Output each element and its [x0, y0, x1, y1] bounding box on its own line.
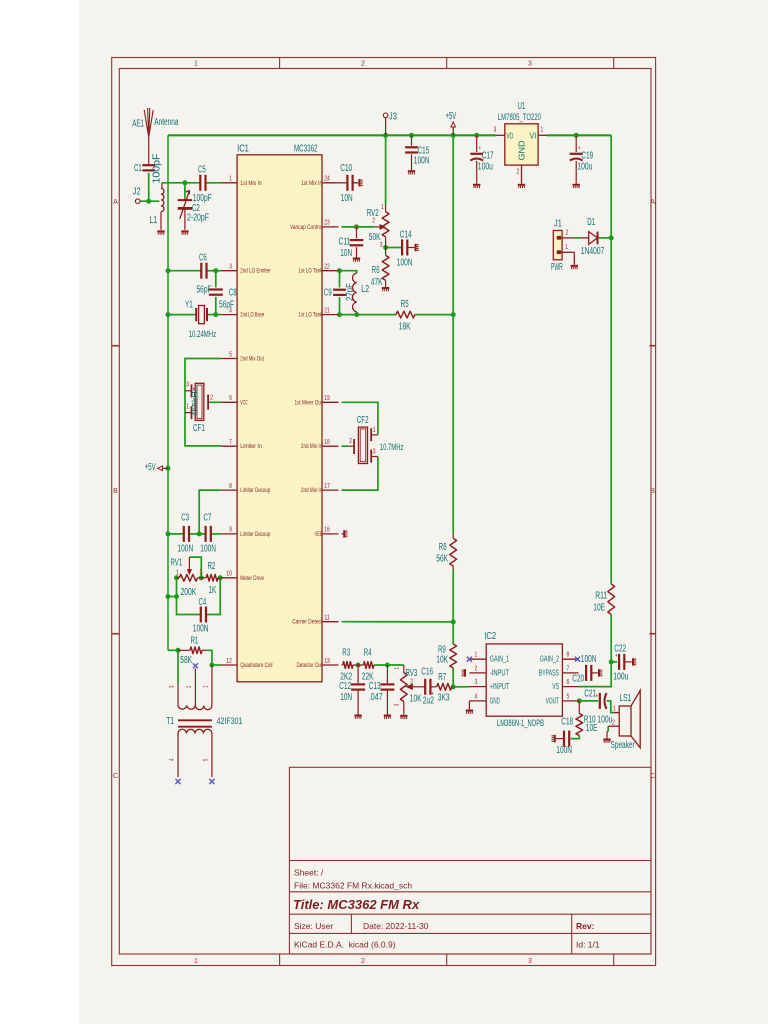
connector J2: [133, 186, 141, 203]
wire CF1 pin 2 to IC1 pin 6 VCC: [210, 401, 222, 403]
svg-text:2: 2: [361, 958, 365, 965]
resistor R2: [201, 561, 220, 596]
capacitor C14: [397, 230, 415, 269]
junction rail C6 line: [166, 268, 171, 273]
svg-text:+5V: +5V: [145, 462, 156, 473]
ground below RV3: [400, 715, 407, 717]
transformer T1: [166, 665, 242, 777]
capacitor C17 polarized: [470, 135, 493, 184]
svg-text:R5: R5: [401, 299, 409, 310]
svg-text:IC1: IC1: [237, 144, 249, 155]
wire C3 to C7: [189, 533, 206, 535]
svg-text:VCC: VCC: [240, 399, 248, 406]
svg-text:4: 4: [475, 693, 478, 700]
svg-text:100pF: 100pF: [152, 153, 163, 183]
svg-text:19: 19: [324, 395, 330, 402]
svg-text:5: 5: [567, 693, 570, 700]
junction +INPUT node: [451, 684, 456, 689]
svg-text:Size: User: Size: User: [294, 921, 333, 931]
svg-text:CF2: CF2: [357, 415, 369, 426]
capacitor C22 polarized: [613, 644, 632, 683]
ground below J1 pin 1: [571, 265, 578, 267]
capacitor C6: [197, 253, 212, 296]
svg-text:+5V: +5V: [446, 111, 457, 122]
variable capacitor C2: [178, 190, 212, 229]
wire T1 pin3 drop: [177, 650, 179, 683]
svg-text:VO: VO: [507, 130, 514, 140]
wire C5 to IC1 pin 1: [205, 182, 221, 184]
wire C8 branch top: [215, 271, 217, 288]
junction R4 C13 node: [385, 663, 390, 668]
svg-text:2: 2: [566, 230, 569, 237]
junction RV1 R2 wiper node: [199, 575, 204, 580]
wire rail bottom to R1: [168, 649, 178, 651]
svg-text:B: B: [113, 488, 118, 495]
svg-text:Sheet: /: Sheet: /: [294, 868, 324, 878]
svg-text:T1: T1: [166, 716, 174, 727]
capacitor C18: [556, 717, 573, 757]
svg-text:Varicap Control: Varicap Control: [290, 224, 322, 231]
wire +5V mid vertical rail: [452, 135, 454, 534]
svg-text:2: 2: [517, 169, 520, 176]
capacitor C8: [209, 288, 237, 311]
svg-text:C6: C6: [199, 253, 207, 264]
svg-text:Meter Drive: Meter Drive: [240, 575, 264, 582]
wire C4 loop left: [177, 578, 202, 615]
junction C15 on rail: [409, 133, 414, 138]
svg-text:Speaker: Speaker: [611, 740, 636, 751]
junction C8 top tap: [213, 268, 218, 273]
svg-text:2nd Mix In: 2nd Mix In: [301, 487, 323, 494]
ground below C15: [408, 170, 415, 172]
wire rail to C6 (pin 3 net): [168, 270, 202, 272]
svg-text:58K: 58K: [180, 655, 192, 666]
svg-text:CF1: CF1: [193, 423, 205, 434]
junction jog RV1 vertical: [174, 594, 179, 599]
svg-text:LM7805_TO220: LM7805_TO220: [498, 112, 541, 122]
svg-text:3: 3: [494, 127, 497, 134]
svg-text:R2: R2: [208, 561, 216, 572]
wire R4 to RV3 pin1: [374, 664, 404, 666]
title block: [289, 767, 651, 954]
wire C2 branch: [184, 183, 186, 198]
crystal Y1: [185, 300, 216, 340]
svg-text:KiCad E.D.A. kicad (6.0.9): KiCad E.D.A. kicad (6.0.9): [294, 940, 396, 950]
svg-text:2nd LO Base: 2nd LO Base: [240, 312, 264, 319]
svg-text:3: 3: [186, 382, 189, 389]
svg-text:C3: C3: [181, 513, 189, 524]
junction rail jog: [166, 594, 171, 599]
wire Y1 to IC1 pin 4: [209, 314, 221, 316]
svg-text:-INPUT: -INPUT: [490, 667, 509, 677]
svg-text:R11: R11: [595, 591, 607, 602]
svg-text:1N4007: 1N4007: [581, 246, 605, 257]
svg-text:MC3362: MC3362: [294, 144, 318, 155]
wire IC1 pin23 to RV2 wiper: [342, 226, 375, 228]
ground below LS1 pin2: [603, 732, 610, 743]
capacitor C21 polarized: [584, 689, 612, 726]
ground below C11: [353, 258, 360, 260]
wire R1 right to pin 12 line: [207, 650, 212, 665]
no-connect X on IC2 pin1: [467, 657, 472, 662]
wire +5V top rail right part: [547, 134, 611, 136]
svg-text:10N: 10N: [340, 692, 352, 703]
wire C7 to IC1 pin 9: [211, 533, 222, 535]
svg-text:16: 16: [324, 527, 330, 534]
svg-text:VS: VS: [552, 681, 559, 691]
svg-text:Rev:: Rev:: [576, 921, 595, 931]
speaker LS1: [608, 690, 640, 751]
svg-text:R7: R7: [438, 672, 446, 683]
svg-text:IC2: IC2: [484, 631, 496, 642]
svg-text:C4: C4: [199, 597, 207, 608]
svg-text:R6: R6: [372, 265, 380, 276]
junction RV1 left end: [174, 575, 179, 580]
svg-text:10.7MHz: 10.7MHz: [380, 442, 404, 452]
svg-text:C: C: [113, 773, 118, 780]
svg-text:+INPUT: +INPUT: [490, 681, 509, 691]
svg-text:100u: 100u: [577, 162, 592, 173]
potentiometer RV3: [395, 665, 426, 715]
svg-text:1: 1: [613, 706, 616, 713]
svg-text:PWR: PWR: [551, 262, 563, 273]
wire IC1 pin18 to CF2 pin2: [342, 445, 349, 447]
svg-text:1st Mix In: 1st Mix In: [301, 180, 323, 187]
capacitor C7: [200, 513, 216, 555]
junction RV2 R6 C14 node: [383, 245, 388, 250]
wire C9 bottom branch: [339, 297, 341, 314]
wire IC1 pin17 to CF2 pin3: [342, 457, 378, 491]
svg-text:C1: C1: [134, 163, 142, 174]
resistor R9: [436, 644, 456, 668]
svg-text:C9: C9: [324, 288, 332, 299]
svg-text:3K3: 3K3: [438, 693, 450, 704]
svg-text:10N: 10N: [340, 248, 352, 259]
svg-text:GND: GND: [490, 695, 500, 705]
svg-text:1K: 1K: [209, 585, 217, 596]
wire RV2 bottom node to C14: [386, 247, 403, 249]
svg-text:VOUT: VOUT: [546, 695, 559, 705]
wire antenna node C1 to junction: [148, 173, 150, 201]
svg-text:Y1: Y1: [185, 300, 193, 311]
wire J1 pin2 to D1: [574, 237, 581, 239]
svg-text:2: 2: [372, 218, 375, 225]
svg-text:4: 4: [229, 307, 232, 314]
svg-text:A: A: [650, 199, 655, 206]
svg-text:1st LO Tank: 1st LO Tank: [299, 312, 323, 319]
svg-text:VEE: VEE: [315, 531, 322, 538]
svg-text:1: 1: [381, 204, 384, 211]
ground left of IC2 pin2: [464, 669, 466, 676]
svg-text:42IF301: 42IF301: [217, 716, 243, 726]
svg-text:Antenna: Antenna: [154, 117, 179, 128]
wire C8 branch bottom: [215, 297, 217, 315]
svg-text:C17: C17: [482, 151, 494, 162]
wire rail jog to RV1 branch: [168, 596, 177, 598]
ceramic filter CF1: [185, 382, 213, 435]
svg-text:GAIN_1: GAIN_1: [490, 654, 510, 664]
svg-text:Limiter Decoup: Limiter Decoup: [240, 531, 270, 538]
capacitor C3: [178, 513, 194, 555]
svg-text:5: 5: [229, 351, 232, 358]
svg-text:1: 1: [541, 127, 544, 134]
capacitor C11: [339, 227, 364, 259]
svg-text:3: 3: [229, 264, 232, 271]
svg-text:100N: 100N: [556, 745, 572, 756]
resistor R3: [340, 648, 358, 683]
svg-text:2: 2: [475, 665, 478, 672]
svg-text:56K: 56K: [436, 554, 448, 565]
capacitor C19 polarized: [570, 135, 593, 184]
svg-text:1st Mix In: 1st Mix In: [240, 180, 262, 187]
svg-text:3: 3: [200, 570, 203, 577]
svg-text:Quadrature Coil: Quadrature Coil: [240, 662, 272, 669]
connector J3: [383, 112, 397, 136]
junction C11 tap: [354, 224, 359, 229]
svg-text:2: 2: [361, 61, 365, 68]
junction R3 R4 C12 node: [356, 663, 361, 668]
svg-text:8: 8: [567, 652, 570, 659]
svg-text:J1: J1: [554, 219, 562, 230]
lead C12 top: [357, 665, 359, 684]
svg-text:A: A: [113, 199, 118, 206]
svg-text:R8: R8: [439, 542, 447, 553]
ground left of C18: [554, 735, 556, 742]
wire rail to C3 (pin 9 net): [168, 533, 184, 535]
svg-text:3: 3: [380, 242, 383, 249]
junction C8 bottom tap: [213, 312, 218, 317]
capacitor C4: [193, 597, 209, 635]
ground below C17: [473, 184, 480, 186]
wire +5V top rail left part: [168, 134, 496, 136]
wire C6 to IC1 pin 3: [206, 270, 221, 272]
potentiometer RV2: [367, 204, 389, 249]
svg-text:1: 1: [229, 176, 232, 183]
inductor L1: [150, 183, 164, 230]
junction rail pin9 line: [166, 531, 171, 536]
capacitor C1: [134, 153, 163, 183]
svg-text:2nd LO Emitter: 2nd LO Emitter: [240, 268, 270, 275]
wire C16 to R7: [430, 686, 437, 688]
svg-text:17: 17: [324, 483, 330, 490]
junction +5V tap on rail: [166, 466, 171, 471]
svg-text:2: 2: [612, 719, 615, 726]
sheet frame border: [112, 58, 656, 966]
wire C4 loop right: [206, 578, 221, 615]
svg-text:C7: C7: [204, 513, 212, 524]
svg-text:Limiter Decoup: Limiter Decoup: [240, 487, 270, 494]
wire IC1 pin 8 decoup loop: [199, 490, 221, 534]
capacitor C10: [339, 163, 359, 204]
svg-text:C20: C20: [572, 674, 584, 685]
resistor R1: [178, 636, 207, 667]
svg-text:R3: R3: [342, 648, 350, 659]
junction R2 right end: [218, 575, 223, 580]
svg-text:100N: 100N: [581, 654, 597, 665]
svg-text:11: 11: [324, 615, 330, 622]
svg-text:1: 1: [176, 570, 179, 577]
svg-text:C10: C10: [340, 163, 352, 174]
ground right of IC1 pin16 VEE: [342, 530, 348, 537]
svg-text:10.24MHz: 10.24MHz: [189, 329, 217, 339]
svg-text:C16: C16: [421, 667, 433, 678]
wire LS1 pin2 down: [607, 726, 609, 731]
ground below U1 pin 2: [518, 184, 525, 186]
potentiometer RV1: [171, 557, 203, 598]
svg-text:1st Mixer Out: 1st Mixer Out: [295, 399, 323, 406]
antenna AE1: [132, 108, 179, 164]
svg-text:2-20pF: 2-20pF: [187, 213, 209, 224]
ground below C13: [384, 715, 391, 717]
ground below C12: [354, 715, 361, 717]
svg-text:U1: U1: [518, 101, 526, 112]
svg-text:10N: 10N: [341, 193, 353, 204]
wire rail to Y1 (pin 4 net): [168, 314, 194, 316]
wire R2 to IC1 pin 10: [220, 577, 221, 579]
svg-text:BYPASS: BYPASS: [539, 667, 559, 677]
no-connect X on T1 pin 4: [175, 779, 180, 784]
diode D1 1N4007: [581, 217, 605, 257]
svg-text:23: 23: [324, 220, 330, 227]
svg-text:J2: J2: [133, 186, 141, 197]
resistor R4: [358, 648, 374, 683]
resistor R10: [576, 701, 598, 736]
ground below C19: [573, 184, 580, 186]
wire pin21 line to R5: [340, 314, 397, 316]
junction R5 on rail: [451, 312, 456, 317]
wire D1 to rail: [599, 237, 611, 239]
junction pin11 R8 R9: [451, 619, 456, 624]
svg-text:Id: 1/1: Id: 1/1: [576, 940, 600, 950]
wire R8 to pin11 junction: [452, 570, 454, 622]
svg-text:C14: C14: [400, 230, 412, 241]
svg-text:Carrier Detect: Carrier Detect: [292, 619, 322, 626]
ground below R6: [382, 287, 389, 289]
junction C9 bottom: [337, 312, 342, 317]
junction D1 on right rail: [609, 235, 614, 240]
svg-text:File: MC3362 FM Rx.kicad_sch: File: MC3362 FM Rx.kicad_sch: [294, 881, 412, 891]
svg-text:100u: 100u: [478, 162, 493, 173]
no-connect X on T1 pin 2: [193, 663, 198, 668]
svg-text:8: 8: [229, 483, 232, 490]
ground right of C22: [632, 658, 634, 665]
svg-text:C13: C13: [369, 681, 381, 692]
svg-text:D1: D1: [587, 217, 595, 228]
wire pin22 to L2 top: [340, 271, 357, 273]
svg-text:22: 22: [324, 264, 330, 271]
svg-text:10: 10: [226, 571, 232, 578]
wire VOUT to C21: [579, 700, 599, 702]
svg-text:1: 1: [194, 61, 198, 68]
svg-text:2: 2: [410, 679, 413, 686]
junction antenna node: [146, 199, 151, 204]
resistor R8: [436, 534, 456, 570]
svg-text:Title: MC3362 FM Rx: Title: MC3362 FM Rx: [293, 897, 420, 912]
svg-text:100u: 100u: [613, 672, 628, 683]
svg-text:10E: 10E: [593, 603, 605, 614]
wire +5V rail right vertical: [610, 135, 612, 584]
svg-text:C12: C12: [339, 681, 351, 692]
wire RF input line L1 top to C5: [162, 182, 201, 184]
svg-text:+: +: [431, 689, 434, 698]
svg-text:10K: 10K: [410, 694, 422, 705]
wire R9 bottom to +INPUT: [453, 668, 469, 687]
svg-text:18K: 18K: [399, 322, 411, 333]
ground below IC2 pin4: [466, 701, 473, 714]
junction pin8 loop on pin9 line: [197, 531, 202, 536]
IC IC1 MC3362: [221, 144, 338, 682]
wire +5V left vertical rail: [167, 135, 169, 650]
svg-text:1: 1: [373, 427, 376, 434]
wire IC1 pin11 carrier detect: [342, 621, 454, 623]
junction L2 bottom: [354, 312, 359, 317]
power symbol +5V top: [446, 111, 457, 135]
svg-text:AE1: AE1: [132, 119, 144, 130]
svg-text:2: 2: [349, 438, 352, 445]
svg-text:2nd Mix Out: 2nd Mix Out: [240, 356, 264, 363]
svg-text:3: 3: [373, 449, 376, 456]
svg-text:455kHz: 455kHz: [190, 387, 199, 416]
capacitor C9: [324, 283, 355, 301]
wire R11 bottom to C22 node: [610, 615, 612, 662]
capacitor C15: [405, 135, 430, 170]
wire R5 to +5V rail: [415, 314, 453, 316]
svg-text:R1: R1: [191, 636, 199, 647]
svg-text:C19: C19: [581, 151, 593, 162]
svg-text:9: 9: [229, 527, 232, 534]
svg-text:3: 3: [528, 958, 532, 965]
svg-text:3: 3: [528, 61, 532, 68]
svg-text:GND: GND: [517, 141, 527, 161]
svg-text:3: 3: [475, 679, 478, 686]
svg-text:B: B: [650, 488, 655, 495]
svg-text:C11: C11: [339, 237, 351, 248]
wire C22 lead: [611, 661, 617, 663]
power symbol +5V left: [145, 462, 168, 473]
svg-text:200K: 200K: [181, 587, 197, 598]
wire C9 top branch: [339, 271, 341, 288]
svg-text:24: 24: [324, 176, 330, 183]
resistor R7: [437, 672, 454, 704]
capacitor C20: [572, 665, 598, 685]
wire pin12 line to IC1: [212, 664, 221, 666]
svg-text:100u: 100u: [597, 715, 612, 726]
svg-text:7: 7: [567, 665, 570, 672]
capacitor C5: [198, 165, 206, 191]
junction C22 VS node: [609, 659, 614, 664]
ground right of C10: [358, 179, 360, 186]
svg-text:2: 2: [210, 395, 213, 402]
svg-text:100N: 100N: [414, 156, 430, 167]
junction T1 pin1 node: [209, 663, 214, 668]
wire R9 top lead: [452, 622, 454, 644]
junction R1 left / T1 pin3 node: [176, 648, 181, 653]
svg-text:VI: VI: [530, 130, 537, 140]
svg-text:LM386N-1_NOPB: LM386N-1_NOPB: [497, 717, 544, 728]
svg-text:+: +: [596, 691, 599, 700]
ground right of C14: [415, 244, 417, 251]
junction C9 top: [337, 268, 342, 273]
junction C17 on rail: [474, 133, 479, 138]
svg-text:1: 1: [475, 652, 478, 659]
wire R10 bottom to C18: [571, 736, 580, 739]
svg-text:L2: L2: [361, 284, 369, 295]
capacitor C16 polarized: [421, 667, 434, 707]
svg-text:RV1: RV1: [171, 558, 183, 569]
junction rail Y1 line: [166, 312, 171, 317]
wire L2 bottom stub: [356, 312, 358, 315]
capacitor C12: [339, 681, 365, 715]
